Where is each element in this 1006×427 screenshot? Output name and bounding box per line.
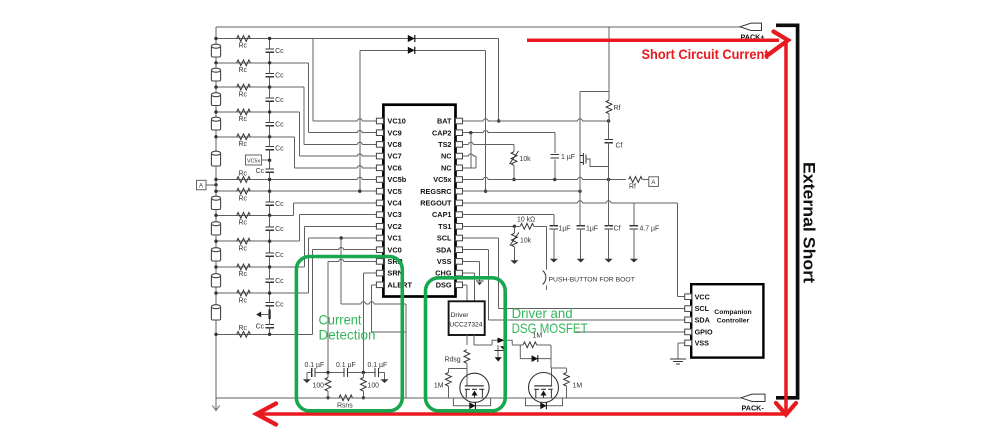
wire VC5 tap row [216, 190, 376, 192]
battery cell 7 [211, 224, 220, 236]
pin VCC (companion stub) [685, 294, 692, 300]
junction Cc column / VC7 row [268, 110, 271, 113]
svg-text:DSG: DSG [436, 280, 452, 289]
svg-text:1M: 1M [573, 382, 583, 389]
resistor 10 kOhm (TS1 to push-button) [520, 223, 534, 229]
resistor Rc (VC5b) [237, 177, 251, 183]
pin GPIO (companion stub) [685, 329, 692, 335]
svg-text:VC9: VC9 [387, 128, 401, 137]
pin TS2 (right stub) [456, 142, 463, 148]
junction TS1/thermistor [513, 225, 516, 228]
wire REGOUT drop to companion VCC [677, 203, 679, 297]
svg-text:Companion: Companion [714, 309, 751, 316]
pin NC (right stub) [456, 165, 463, 171]
pin SDA (right stub) [456, 247, 463, 253]
wire VC0 tap row [216, 333, 313, 335]
svg-text:CAP2: CAP2 [432, 128, 451, 137]
svg-text:TS1: TS1 [438, 222, 451, 231]
junction Cc column / VC2 row [268, 265, 271, 268]
wire NC1 to NC2 tie [475, 156, 477, 168]
wire VC1 tap row [216, 292, 309, 294]
pin VC2 (left stub) [376, 224, 383, 230]
svg-text:Current: Current [319, 312, 362, 328]
svg-text:SCL: SCL [437, 234, 452, 243]
svg-text:100: 100 [313, 382, 325, 389]
pin TS1 (right stub) [456, 224, 463, 230]
wire companion VSS to ground [678, 342, 685, 344]
svg-text:Cc: Cc [275, 278, 284, 285]
svg-text:10k: 10k [520, 156, 532, 163]
wire VC7 tap row [216, 111, 299, 113]
svg-text:Cc: Cc [275, 146, 284, 153]
wire gate bridge with arrow [492, 340, 512, 345]
ground arrow (filter right) [384, 373, 386, 380]
transistor Q1 (REGSRC pass PFET) [579, 150, 581, 168]
red arrowhead down (bottom right) [776, 403, 796, 415]
capacitor 0.1uF #1 [311, 368, 313, 377]
capacitor Cc #4 [265, 121, 274, 123]
green box driver and DSG MOSFET [426, 278, 506, 411]
wire VC5b tap row [216, 179, 376, 181]
resistor Rc (VC0) [237, 331, 251, 337]
resistor Rc (VC1) [237, 290, 251, 296]
junction D2 to REGSRC row [484, 190, 487, 193]
svg-text:Cc: Cc [256, 324, 265, 331]
svg-text:A: A [651, 180, 655, 186]
junction VC2 tap at string [214, 265, 217, 268]
ground arrow (CAP1 cap) [553, 252, 555, 259]
capacitor Cc #8 [265, 226, 274, 228]
resistor Rc (VC3) [237, 238, 251, 244]
svg-text:Cf: Cf [614, 226, 621, 233]
svg-text:VC0: VC0 [387, 245, 401, 254]
svg-text:1 µF: 1 µF [561, 154, 575, 161]
pin VC6 (left stub) [376, 165, 383, 171]
wire CHG gate node [550, 345, 552, 368]
ground arrow (4.7uF cap) [633, 252, 635, 259]
connector PACK- [741, 394, 765, 401]
svg-text:Rf: Rf [614, 105, 621, 112]
node PACK- bottom rail [216, 397, 741, 399]
wire VSS to ground [463, 260, 480, 262]
battery cell 6 [211, 198, 220, 210]
svg-text:Rc: Rc [239, 43, 248, 50]
junction VC8 tap at string [214, 85, 217, 88]
wire VC1 branch (to driver area) [340, 236, 343, 239]
capacitor 0.1uF #2 [343, 368, 345, 377]
svg-text:VC5x: VC5x [433, 175, 451, 184]
pin VC5x (right stub) [456, 177, 463, 183]
wire SDA net to companion [463, 249, 489, 251]
svg-text:Cc: Cc [275, 122, 284, 129]
wire PFET column to REGSRC [579, 168, 581, 191]
wire VC5 riser to diode D2 [359, 50, 361, 191]
battery cell 3 [211, 95, 220, 106]
junction Cc column / VC6 row [268, 135, 271, 138]
capacitor Cc #2 [265, 72, 274, 74]
junction VC5x/Cf [607, 178, 610, 181]
IC U1 bq769x0 body [383, 105, 455, 297]
svg-text:4.7 µF: 4.7 µF [640, 226, 660, 233]
pin SCL (companion stub) [685, 306, 692, 312]
resistor 1M (CHG gate-source) [566, 368, 568, 372]
svg-text:DSG MOSFET: DSG MOSFET [512, 320, 588, 336]
pin VSS (companion stub) [685, 340, 692, 346]
wire CAP2 row [463, 132, 555, 134]
wire CAP2 branch down to NC row [470, 133, 472, 168]
wire VC10 row extension to diode D1 [313, 38, 499, 40]
pin VC7 (left stub) [376, 153, 383, 159]
wire NC2 row [463, 167, 477, 169]
battery cell 9 [211, 276, 220, 288]
pin BAT (right stub) [456, 118, 463, 124]
wire VC5x row [463, 179, 627, 181]
capacitor Cc #7 [265, 201, 274, 203]
wire VC4 tap row [216, 214, 293, 216]
svg-text:A: A [199, 184, 203, 190]
junction REGSRC/PFET column [578, 190, 581, 193]
svg-text:10 kΩ: 10 kΩ [517, 216, 535, 223]
wire SRP net [328, 260, 376, 262]
wire to 1M gate resistor [512, 344, 523, 346]
battery cell 4 [211, 119, 220, 130]
wire gate pulldown row [448, 367, 467, 369]
svg-text:Cc: Cc [275, 48, 284, 55]
wire PFET supply column [608, 27, 610, 100]
svg-text:Rsns: Rsns [337, 403, 353, 410]
svg-text:Rc: Rc [239, 195, 248, 202]
svg-text:Cc: Cc [275, 252, 284, 259]
junction VC0 tap at string [214, 333, 217, 336]
pin NC (right stub) [456, 153, 463, 159]
resistor 100 (SRN) [362, 373, 364, 378]
switch push-button for boot [543, 271, 546, 285]
svg-text:0.1 µF: 0.1 µF [305, 362, 325, 369]
wire ALERT net to companion GPIO [575, 331, 686, 333]
resistor Rc (VC10) [237, 36, 251, 42]
pin CAP1 (right stub) [456, 212, 463, 218]
wire D1 cathode drop to BAT pin [498, 39, 500, 122]
pin ALERT (left stub) [376, 282, 383, 288]
svg-text:1M: 1M [434, 382, 444, 389]
svg-text:Cc: Cc [275, 97, 284, 104]
diode body (CHG FET) [526, 398, 563, 406]
junction Cc column / VC4 row [268, 214, 271, 217]
wire push-button drop [546, 226, 548, 269]
svg-text:1µF: 1µF [586, 226, 598, 233]
wire REGOUT row [463, 202, 678, 204]
wire BAT row [463, 120, 609, 122]
battery cell 8 [211, 250, 220, 262]
pin REGSRC (right stub) [456, 188, 463, 194]
pin SDA (companion stub) [685, 317, 692, 323]
wire hops (crossovers) [357, 120, 362, 122]
svg-text:VC3: VC3 [387, 210, 401, 219]
junction Cc column / VC8 row [268, 85, 271, 88]
ground symbol (VSS) [476, 280, 483, 282]
wire VC8 tap row [216, 86, 304, 88]
pin DSG (right stub) [456, 282, 463, 288]
wire VC2 tap row [216, 266, 305, 268]
resistor Rdsg [464, 350, 470, 364]
junction Cc column / VC10 row [268, 37, 271, 40]
pin VC9 (left stub) [376, 130, 383, 136]
svg-text:Rc: Rc [239, 170, 248, 177]
svg-text:VC5b: VC5b [387, 175, 406, 184]
junction VC5x/1uF [553, 178, 556, 181]
svg-text:Rf: Rf [629, 184, 636, 191]
wire REGSRC row [463, 190, 581, 192]
svg-text:VC10: VC10 [387, 117, 406, 126]
junction SRP filter [326, 371, 329, 374]
junction VC5b tap at string [214, 178, 217, 181]
svg-text:Cc: Cc [275, 73, 284, 80]
transistor Q2 DSG MOSFET [460, 373, 489, 402]
svg-text:VC7: VC7 [387, 152, 401, 161]
pin REGOUT (right stub) [456, 200, 463, 206]
diode D1 (BAT feed) [408, 35, 415, 42]
node mid-cap arrow (lower Cc pair) [269, 310, 271, 320]
junction Cc column / VC5 row [268, 190, 271, 193]
svg-text:GPIO: GPIO [695, 328, 713, 337]
junction 10k to VC5x row [512, 178, 515, 181]
junction Cc column / VC5b row [268, 178, 271, 181]
svg-text:Cc: Cc [275, 201, 284, 208]
external short path (thick black) [776, 25, 798, 398]
svg-text:Driver: Driver [451, 312, 470, 319]
ground arrow (REGSRC cap) [580, 252, 582, 259]
transistor Q3 CHG MOSFET [529, 373, 559, 403]
svg-text:0.1 µF: 0.1 µF [336, 362, 356, 369]
svg-text:External Short: External Short [800, 162, 818, 284]
capacitor 0.1uF #3 [374, 368, 376, 377]
junction VC6 tap at string [214, 135, 217, 138]
svg-text:Rc: Rc [239, 325, 248, 332]
wire sense filter row [307, 372, 385, 374]
svg-text:UCC27324: UCC27324 [449, 322, 482, 329]
wire VC9 tap row [216, 62, 309, 64]
svg-text:VC6: VC6 [387, 163, 401, 172]
pin SCL (right stub) [456, 235, 463, 241]
svg-text:PACK-: PACK- [742, 404, 765, 413]
junction VC7 tap at string [214, 110, 217, 113]
svg-text:NC: NC [441, 152, 452, 161]
svg-text:SDA: SDA [695, 315, 710, 324]
svg-text:Detection: Detection [319, 327, 376, 343]
svg-text:REGSRC: REGSRC [420, 187, 452, 196]
resistor 1M (CHG gate) [523, 342, 537, 348]
pin SRP (left stub) [376, 259, 383, 265]
pin VC8 (left stub) [376, 142, 383, 148]
svg-text:100: 100 [368, 382, 380, 389]
capacitor 4.7uF (REGOUT) [633, 203, 635, 226]
svg-text:Cc: Cc [256, 168, 265, 175]
node A (right) box [649, 177, 659, 187]
wire ALERT net [372, 284, 377, 286]
svg-text:Controller: Controller [717, 318, 750, 325]
pin CAP2 (right stub) [456, 130, 463, 136]
IC U3 companion controller body [691, 284, 763, 357]
svg-text:ALERT: ALERT [387, 280, 412, 289]
svg-text:VC2: VC2 [387, 222, 401, 231]
junction Rsns right [362, 396, 365, 399]
svg-text:Driver and: Driver and [512, 305, 573, 321]
ground arrow (TS1 thermistor) [513, 256, 515, 261]
label box VC5x (net tie) [246, 155, 262, 165]
pin VC5b (left stub) [376, 177, 383, 183]
junction D1 to BAT row [497, 119, 500, 122]
svg-text:TS2: TS2 [438, 140, 451, 149]
wire VC5x box to Cc column [262, 159, 270, 161]
svg-text:VSS: VSS [695, 339, 710, 348]
pin VSS (right stub) [456, 259, 463, 265]
junction SRN filter [362, 371, 365, 374]
wire battery string [215, 27, 217, 400]
junction Cc column / VC3 row [268, 240, 271, 243]
svg-text:Cc: Cc [275, 302, 284, 309]
capacitor Cc #6 [265, 168, 274, 170]
svg-text:Rc: Rc [239, 245, 248, 252]
wire CHG to driver input [463, 272, 475, 274]
junction VC5x tie [268, 159, 271, 162]
thermistor 10k (TS2) [513, 144, 515, 151]
junction VC3 tap at string [214, 240, 217, 243]
diode gate speedup (CHG) [520, 345, 551, 359]
battery cell 2 [211, 70, 220, 81]
junction node A at string [214, 183, 217, 186]
resistor Rsns [339, 395, 353, 401]
connector PACK+ [740, 23, 762, 30]
wire SCL net to companion [463, 237, 499, 239]
pin SRN (left stub) [376, 270, 383, 276]
svg-text:Rc: Rc [239, 271, 248, 278]
svg-text:SDA: SDA [436, 245, 452, 254]
resistor Rf (PACK+ to BAT) [606, 100, 612, 114]
thermistor 10k (TS1) [513, 226, 515, 233]
junction Cc column / VC1 row [268, 291, 271, 294]
svg-text:REGOUT: REGOUT [420, 199, 452, 208]
svg-text:Rc: Rc [239, 67, 248, 74]
svg-text:Rc: Rc [239, 91, 248, 98]
wire PFET branch top [580, 90, 609, 92]
capacitor Cc #9 [265, 252, 274, 254]
diode body (DSG FET) [453, 398, 490, 406]
svg-text:1µF: 1µF [559, 226, 571, 233]
wire NC1 row [463, 155, 477, 157]
resistor Rc (VC5) [237, 188, 251, 194]
battery cell 10 [211, 307, 220, 321]
svg-text:Rc: Rc [239, 141, 248, 148]
clamp to ground (gate network) [497, 345, 499, 358]
svg-text:Short Circuit Current: Short Circuit Current [642, 47, 770, 62]
svg-text:Cf: Cf [616, 143, 623, 150]
resistor Rc (VC2) [237, 264, 251, 270]
pin VC10 (left stub) [376, 118, 383, 124]
resistor 100 (SRP) [327, 373, 329, 378]
capacitor Cc #1 [265, 48, 274, 50]
resistor 1M (DSG gate-source) [447, 368, 449, 372]
capacitor Cc #10 [265, 278, 274, 280]
pin VC1 (left stub) [376, 235, 383, 241]
wire node A to string [206, 184, 216, 186]
junction VC5 tap at string [214, 190, 217, 193]
battery cell 1 [211, 46, 220, 57]
red arrow return (bottom) [260, 412, 786, 416]
svg-text:VSS: VSS [437, 257, 452, 266]
svg-text:Rc: Rc [239, 116, 248, 123]
node BATT+ top rail [216, 26, 740, 28]
svg-text:Cc: Cc [275, 226, 284, 233]
wire D2 cathode drop to REGSRC row [485, 50, 487, 191]
wire driver out A (DSG gate) [466, 335, 468, 345]
ground arrow (filter left) [306, 373, 308, 380]
wire driver out B (CHG gate) [473, 335, 475, 345]
capacitor 1uF (CAP1) [553, 215, 555, 226]
IC U2 driver box [449, 301, 485, 335]
svg-text:VC4: VC4 [387, 199, 402, 208]
ground arrow (Cf cap) [608, 252, 610, 259]
svg-text:VC5: VC5 [387, 187, 401, 196]
junction VC5 riser [358, 190, 361, 193]
wire VC6 tap row [216, 136, 294, 138]
wire VC3 tap row [216, 240, 299, 242]
wire TS1 row [463, 225, 521, 227]
diode D2 (REGSRC feed) [408, 47, 415, 54]
red path down right side [784, 42, 788, 412]
capacitor 1uF (CAP2 to VC5x) [554, 133, 556, 153]
pin CHG (right stub) [456, 270, 463, 276]
svg-text:BAT: BAT [437, 117, 452, 126]
wire DSG to driver input [463, 284, 467, 286]
resistor Rc (VC7) [237, 109, 251, 115]
capacitor Cf (lower, VC5x column) [608, 180, 610, 226]
svg-text:SCL: SCL [695, 304, 710, 313]
node A (left) box [197, 180, 207, 190]
wire D2 row [360, 49, 486, 51]
wire CAP1 row [463, 214, 554, 216]
svg-text:CAP1: CAP1 [432, 210, 451, 219]
capacitor Cc #5 [265, 145, 274, 147]
svg-text:VCC: VCC [695, 292, 710, 301]
svg-text:PUSH-BUTTON FOR BOOT: PUSH-BUTTON FOR BOOT [549, 277, 635, 284]
resistor Rc (VC9) [237, 60, 251, 66]
resistor Rc (VC6) [237, 134, 251, 140]
junction Cc column / VC9 row [268, 61, 271, 64]
battery cell 5 [211, 153, 220, 166]
pin VC4 (left stub) [376, 200, 383, 206]
capacitor Cc #11 [265, 301, 274, 303]
wire SRN net [363, 272, 376, 274]
pin VC3 (left stub) [376, 212, 383, 218]
capacitor 1uF (REGSRC column) [579, 191, 581, 225]
capacitor Cc #12 [265, 323, 274, 325]
junction BAT/Rf/Cf [607, 119, 610, 122]
ground symbol (companion VSS) [670, 358, 686, 360]
junction Rsns left [326, 396, 329, 399]
red arrow short circuit current (top) [527, 39, 779, 43]
svg-text:VC5x: VC5x [247, 158, 260, 164]
resistor Rc (VC8) [237, 84, 251, 90]
svg-text:Rc: Rc [239, 220, 248, 227]
green box current detection [296, 257, 402, 411]
junction VC4 tap at string [214, 214, 217, 217]
wire TS2 row [463, 143, 515, 145]
capacitor Cc #3 [265, 97, 274, 99]
junction VC1 tap at string [214, 291, 217, 294]
wire Cc filter column [269, 39, 271, 335]
junction VC9 tap at string [214, 61, 217, 64]
junction Cc column / VC0 row [268, 333, 271, 336]
